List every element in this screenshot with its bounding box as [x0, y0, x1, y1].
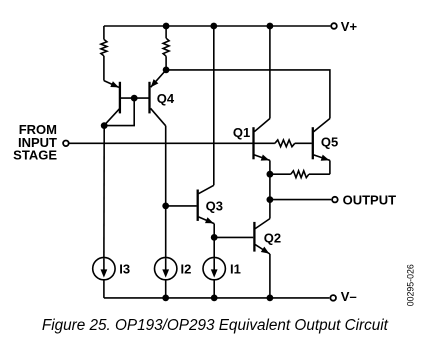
- wire: input stage line to Q1 base: [70, 142, 253, 144]
- node: Q2 base / Q3 emitter / I1 junction: [211, 234, 218, 241]
- svg-text:Q4: Q4: [157, 91, 175, 106]
- node: Q3 base junction: [162, 203, 169, 210]
- node: Q4 emitter / Q5 collector tie: [163, 67, 170, 74]
- resistor (upper left, emitter of left PNP): [101, 26, 107, 81]
- svg-text:Q3: Q3: [206, 198, 223, 213]
- node: rail junction below I2: [162, 295, 169, 302]
- svg-text:Q1: Q1: [233, 125, 250, 140]
- wire: collector-to-base tie: [104, 98, 134, 126]
- node: rail junction above Q1 collector line: [267, 23, 274, 30]
- transistor Q1 (NPN): [233, 119, 270, 175]
- terminal FROM INPUT STAGE: [13, 122, 69, 163]
- transistor Q5 (NPN): [313, 119, 338, 175]
- transistor Q3 (NPN): [198, 185, 223, 257]
- terminal V+: [331, 19, 357, 34]
- wire: I3 to V- rail: [103, 280, 105, 298]
- wire: emitter node to output node: [269, 174, 271, 199]
- node: left PNP collector / base tie: [101, 122, 108, 129]
- wire: Q4 emitter node to Q5 collector: [166, 70, 330, 119]
- wire: Q4 collector to I2: [165, 126, 167, 257]
- svg-text:Q2: Q2: [264, 230, 281, 245]
- svg-text:I2: I2: [181, 261, 192, 276]
- wire: rail to Q3 collector: [213, 26, 215, 185]
- label: figure code 00295-026: [406, 264, 416, 306]
- svg-text:00295-026: 00295-026: [406, 264, 416, 306]
- wire: rail to Q1 collector: [269, 26, 271, 119]
- wire: Q2 base: [214, 236, 253, 238]
- node OUTPUT: [267, 196, 274, 203]
- wire: Q3 base: [166, 205, 197, 207]
- current source I2: [155, 257, 192, 279]
- wire: PNP collector node to I3: [103, 126, 105, 258]
- node: rail junction below I1: [211, 295, 218, 302]
- svg-text:OUTPUT: OUTPUT: [343, 193, 397, 208]
- svg-text:STAGE: STAGE: [13, 148, 57, 163]
- transistor Q4 (PNP): [150, 70, 175, 126]
- resistor (Q5 emitter): [270, 171, 330, 178]
- node: rail junction below Q2 emitter: [267, 295, 274, 302]
- svg-text:Q5: Q5: [321, 135, 338, 150]
- terminal V-: [330, 289, 356, 304]
- pnp transistor (left, diode-connected pair with Q4): [104, 81, 120, 126]
- svg-text:I1: I1: [230, 261, 241, 276]
- transistor Q2 (NPN): [254, 200, 281, 298]
- node: base junction of PNP pair: [131, 95, 138, 102]
- caption: Figure 25 title: [42, 317, 389, 334]
- wire V+ rail (top): [104, 25, 331, 27]
- node: rail junction above Q3 collector line: [210, 23, 217, 30]
- svg-text:I3: I3: [119, 261, 130, 276]
- node: Q1 emitter / Q5 emitter-resistor tie: [267, 171, 274, 178]
- wire: common base of PNP pair: [120, 97, 150, 99]
- terminal OUTPUT: [270, 193, 396, 208]
- current source I1: [203, 257, 241, 279]
- current source I3: [93, 257, 130, 279]
- svg-text:V–: V–: [341, 289, 357, 304]
- wire: I1 to V- rail: [213, 280, 215, 298]
- node: rail junction above R2: [163, 23, 170, 30]
- wire V- rail (bottom): [104, 297, 330, 299]
- wire: I2 to V- rail: [165, 280, 167, 298]
- svg-text:Figure 25. OP193/OP293 Equival: Figure 25. OP193/OP293 Equivalent Output…: [42, 317, 389, 334]
- svg-text:V+: V+: [341, 19, 358, 34]
- resistor (between Q1 and Q5 bases): [254, 140, 312, 147]
- resistor (upper, emitter of Q4): [163, 26, 169, 70]
